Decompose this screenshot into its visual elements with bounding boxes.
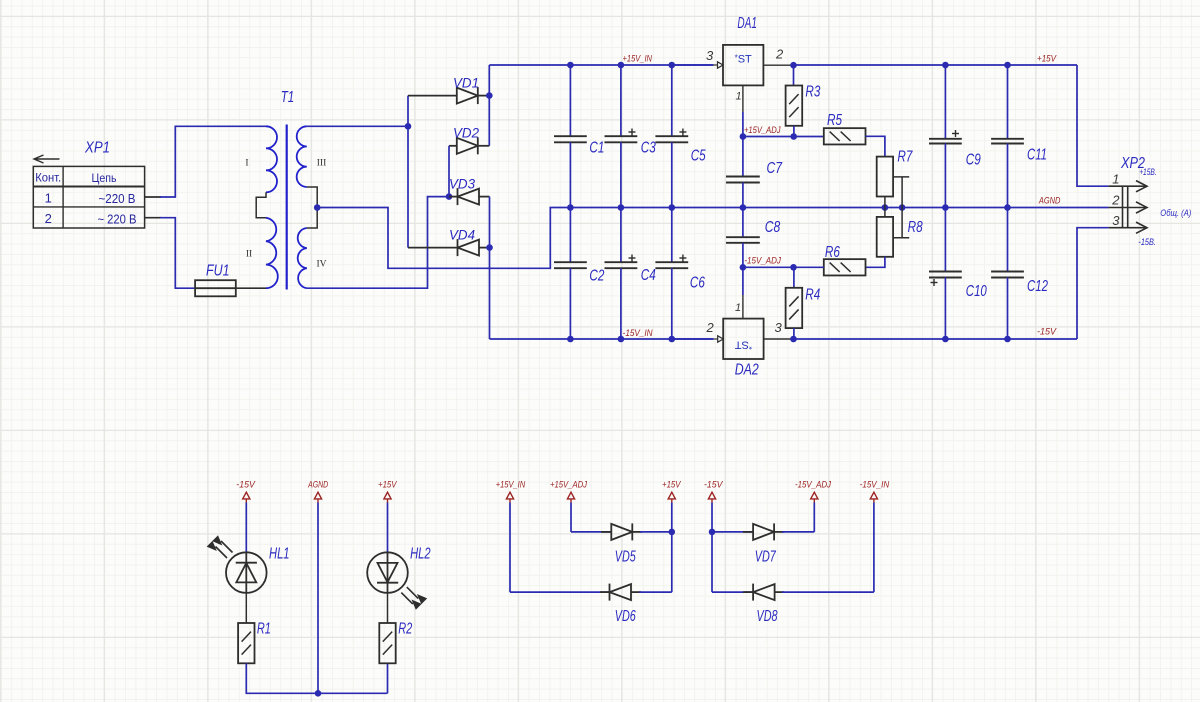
capacitor C2 [554, 208, 587, 340]
DA2 pin 1 number [735, 302, 741, 314]
wire +15V_ADJ to VD5 [571, 531, 611, 533]
XP1 pin 2 text [45, 211, 137, 227]
svg-text:R2: R2 [398, 620, 412, 637]
diode VD4 [408, 239, 490, 256]
power flag +15V_IN (VD6) [506, 492, 513, 592]
wire R7 to AGND [884, 197, 886, 208]
svg-text:1: 1 [45, 191, 52, 206]
svg-text:C6: C6 [690, 274, 705, 291]
wire VD8 to -15V_IN [782, 591, 874, 593]
diode VD8 [743, 584, 784, 601]
node VD1 cathode junction [486, 92, 493, 99]
wire AGND to R8 [884, 208, 886, 217]
power flag +15V_ADJ (VD5) [567, 492, 574, 532]
svg-text:R7: R7 [897, 149, 913, 166]
wire winding IV bottom to VD3 node [307, 197, 449, 289]
svg-text:DA1: DA1 [737, 15, 757, 32]
wire -15V_IN rail [490, 338, 714, 340]
wire HL2 to R2 [387, 593, 389, 623]
capacitor C10 label [966, 283, 987, 300]
svg-text:FU1: FU1 [206, 263, 230, 280]
net label +15V (HL2) [378, 480, 398, 491]
T1 primary winding II [266, 218, 278, 288]
svg-text:C5: C5 [691, 148, 706, 165]
XP2 pin 3 number [1112, 213, 1120, 228]
capacitor C7 label [767, 160, 784, 177]
power flag -15V_IN (VD8) [870, 492, 877, 592]
net label -15V (bottom) [704, 480, 724, 491]
net label -15V (HL1) [236, 480, 256, 491]
node -15V_ADJ DA2 junction [740, 264, 747, 271]
resistor R1 [238, 623, 254, 663]
node AGND junction x945 [942, 204, 949, 211]
DA1 pin 1 wire [742, 85, 744, 136]
capacitor C9 [929, 65, 962, 208]
XP2 net -15В [1138, 237, 1156, 248]
resistor R2 label [398, 620, 412, 637]
node C3 top [618, 62, 625, 69]
net label +15V_ADJ (bottom) [550, 480, 587, 491]
svg-text:HL1: HL1 [269, 545, 290, 562]
wire DA1 out to R3 [793, 65, 795, 85]
svg-text:R4: R4 [805, 286, 820, 303]
wire VD7 to -15V_ADJ [782, 531, 814, 533]
wire VD1 anode vertical [407, 96, 409, 248]
svg-text:VD7: VD7 [755, 548, 777, 565]
wire -15V to VD7 [712, 531, 753, 533]
svg-text:AGND: AGND [307, 480, 328, 491]
op-amp U-block DA1 [723, 45, 763, 86]
wire +15V to XP2 pin1 [1077, 65, 1109, 186]
svg-text:R6: R6 [825, 244, 840, 261]
wire XP1-2 down to fuse [145, 218, 196, 289]
net label -15V_IN [623, 328, 653, 339]
svg-text:AGND: AGND [1038, 196, 1060, 207]
resistor R8 label [908, 219, 923, 236]
svg-text:Конт.: Конт. [35, 173, 61, 185]
svg-text:+15V_ADJ: +15V_ADJ [550, 480, 587, 491]
svg-text:C9: C9 [966, 151, 981, 168]
node AGND bottom junction [315, 690, 322, 697]
capacitor C12 [991, 208, 1024, 340]
svg-text:3: 3 [706, 48, 714, 63]
wire +15V rail [794, 64, 1078, 66]
svg-text:DA2: DA2 [735, 361, 759, 378]
svg-text:VD8: VD8 [757, 608, 778, 625]
DA1 label [737, 15, 757, 32]
svg-text:R5: R5 [827, 112, 842, 129]
wire AGND rail [570, 207, 1108, 209]
svg-text:1: 1 [735, 302, 741, 314]
svg-text:2: 2 [706, 320, 715, 335]
resistor R3 [786, 86, 803, 126]
svg-text:+15V_IN: +15V_IN [623, 54, 653, 65]
T1 primary winding I [266, 126, 277, 192]
net label -15V_ADJ [744, 255, 781, 266]
node DA2 output junction [790, 336, 797, 343]
svg-text:VD4: VD4 [449, 228, 475, 243]
connector XP2 label [1120, 155, 1145, 172]
net label +15V_IN (bottom) [496, 480, 526, 491]
XP2 pin 2 number [1111, 193, 1120, 208]
capacitor C7 [726, 137, 760, 208]
svg-text:II: II [246, 250, 252, 260]
node C11 top [1004, 62, 1011, 69]
svg-text:2: 2 [1111, 193, 1120, 208]
DA1 pin 2 number [775, 47, 784, 62]
resistor R7 label [897, 149, 913, 166]
diode VD1 label [453, 76, 479, 91]
svg-text:-15V_IN: -15V_IN [623, 328, 653, 339]
svg-text:+15V_IN: +15V_IN [496, 480, 526, 491]
XP2 net +15В [1139, 167, 1157, 178]
capacitor C2 label [589, 268, 604, 285]
diode VD7 [743, 523, 784, 540]
diode VD5 label [615, 548, 636, 565]
svg-text:-15V: -15V [704, 480, 724, 491]
fuse FU1 [195, 280, 236, 296]
capacitor C1 [554, 65, 587, 208]
XP2 net Общ (А) [1160, 208, 1191, 219]
node VD4 cathode junction [486, 244, 493, 251]
svg-text:1: 1 [1112, 172, 1119, 187]
node AGND junction x884 [882, 204, 889, 211]
svg-text:XP1: XP1 [84, 140, 110, 157]
T1 winding IV numeral [316, 260, 326, 270]
svg-text:-15V: -15V [1037, 327, 1058, 338]
XP1 table header text [35, 171, 116, 185]
capacitor C4 label [641, 267, 656, 284]
DA1 pin 3 number [706, 48, 714, 63]
wire VD3/VD4 right vertical to -15V_IN rail [489, 197, 491, 339]
power flag -15V (VD7/VD8) [708, 492, 715, 532]
svg-text:VD3: VD3 [449, 177, 475, 192]
power flag -15V (HL1) [243, 492, 250, 552]
wire +15V_IN to VD6 [510, 591, 610, 593]
svg-text:-15В.: -15В. [1138, 237, 1156, 248]
svg-text:*ST: *ST [735, 54, 752, 66]
power flag AGND (bottom) [314, 492, 321, 693]
node C12 bottom [1004, 336, 1011, 343]
capacitor C3 [605, 65, 638, 208]
svg-text:C7: C7 [767, 160, 784, 177]
connector XP1 table [33, 166, 144, 228]
svg-text:2: 2 [775, 47, 784, 62]
node AGND junction x570 [567, 204, 574, 211]
svg-text:C8: C8 [765, 219, 781, 236]
capacitor C10 [929, 208, 962, 340]
diode VD6 [600, 584, 641, 601]
diode VD3 label [449, 177, 475, 192]
node C9 top [942, 62, 949, 69]
DA2 pin 3 number [775, 320, 783, 335]
DA1 pin 2 wire [763, 64, 793, 66]
resistor R2 [379, 623, 395, 663]
LED HL1 [208, 536, 267, 593]
svg-text:C4: C4 [641, 267, 656, 284]
svg-text:C3: C3 [641, 139, 656, 156]
DA2 pin 3 wire [764, 338, 794, 340]
diode VD5 [601, 523, 642, 540]
capacitor C11 label [1027, 147, 1047, 164]
capacitor C3 label [641, 139, 656, 156]
svg-text:VD6: VD6 [615, 608, 636, 625]
svg-text:C1: C1 [589, 139, 604, 156]
svg-text:-15V_ADJ: -15V_ADJ [795, 480, 831, 491]
wire +15V down to VD6 [671, 532, 673, 592]
svg-text:1: 1 [736, 91, 742, 103]
resistor R4 [786, 288, 803, 328]
wire T1 tap to AGND jog [317, 208, 572, 269]
wire R3 to +15V_ADJ [793, 126, 795, 137]
svg-text:~ 220 В: ~ 220 В [98, 212, 137, 227]
wire -15V_IN to DA2 pin 2 [672, 336, 723, 342]
LED HL1 label [269, 545, 290, 562]
node VD3 junction [446, 193, 453, 200]
DA2 pin 2 number [706, 320, 715, 335]
transformer T1 label [281, 89, 295, 106]
capacitor C12 label [1027, 278, 1048, 295]
power flag +15V (HL2) [384, 492, 391, 552]
svg-text:R1: R1 [257, 620, 271, 637]
wire +15V_IN rail [489, 64, 713, 66]
node winding III top junction [405, 123, 412, 130]
diode VD6 label [615, 608, 636, 625]
wire VD6 to +15V node [639, 591, 672, 593]
svg-text:C2: C2 [589, 268, 604, 285]
T1 secondary winding IV [298, 228, 307, 288]
resistor R1 label [257, 620, 271, 637]
wire VD2 anode to VD3 node [448, 146, 450, 197]
svg-text:-15V_IN: -15V_IN [860, 480, 890, 491]
diode VD2 [449, 137, 489, 154]
node C1 top [567, 62, 574, 69]
wire R8 to R6 [866, 257, 885, 268]
svg-text:HL2: HL2 [410, 545, 431, 562]
capacitor C4 [605, 208, 638, 340]
resistor R8 [877, 217, 893, 257]
resistor R6 label [825, 244, 840, 261]
svg-text:+15V: +15V [1037, 54, 1057, 65]
node AGND junction x620 [618, 204, 625, 211]
wire VD5 to +15V node [640, 531, 672, 533]
net label -15V [1037, 327, 1058, 338]
node R3 bottom junction [790, 133, 797, 140]
svg-text:R8: R8 [908, 219, 923, 236]
diode VD2 label [453, 126, 479, 141]
svg-text:III: III [317, 159, 327, 169]
svg-text:I: I [245, 159, 248, 169]
node AGND junction x902 [899, 204, 906, 211]
node R4 top junction [790, 264, 797, 271]
node C10 bottom [942, 336, 949, 343]
wire R4 top [793, 267, 795, 288]
connector XP1 arrow [34, 155, 60, 163]
svg-text:C10: C10 [966, 283, 987, 300]
node AGND junction x742 [740, 204, 747, 211]
op-amp U-block DA2 [723, 319, 763, 359]
XP2 pin 1 number [1112, 172, 1119, 187]
R8 tap [893, 208, 909, 238]
svg-text:3: 3 [775, 320, 783, 335]
wire -15V to XP2 pin3 [1077, 228, 1109, 339]
wire -15V down to VD8 [712, 532, 753, 592]
net label +15V [1037, 54, 1057, 65]
wire R1 to AGND bottom [246, 663, 318, 693]
node C2 bottom [567, 336, 574, 343]
wire FU1 to T1 winding II [236, 287, 266, 289]
T1 core [286, 125, 288, 290]
power flag +15V (VD5/VD6) [668, 492, 675, 532]
resistor R5 label [827, 112, 842, 129]
wire R4 to -15V rail [793, 328, 795, 339]
svg-text:~220 В: ~220 В [99, 191, 136, 206]
connector XP2 pins [1109, 181, 1147, 234]
power flag -15V_ADJ (VD7) [811, 492, 818, 532]
net label +15V_ADJ [744, 125, 781, 136]
capacitor C11 [991, 65, 1024, 208]
node C6 bottom [669, 336, 676, 343]
DA1 pin 1 number [736, 91, 742, 103]
resistor R7 [877, 157, 893, 197]
wire winding III top to VD1/VD4 vertical [307, 125, 408, 127]
net label +15V (bottom) [662, 480, 682, 491]
svg-text:VD5: VD5 [615, 548, 636, 565]
node AGND junction x671 [669, 204, 676, 211]
svg-text:-15V_ADJ: -15V_ADJ [744, 255, 781, 266]
svg-text:*ST: *ST [735, 339, 752, 351]
T1 winding III numeral [317, 159, 327, 169]
wire VD1/VD2 cathode vertical to +15V_IN rail [488, 65, 490, 146]
wire XP1-1 to T1 winding I [145, 126, 266, 197]
net label +15V_IN [623, 54, 653, 65]
svg-text:Общ. (А): Общ. (А) [1160, 208, 1191, 219]
svg-text:+15В.: +15В. [1139, 167, 1157, 178]
node AGND junction x1007 [1004, 204, 1011, 211]
svg-text:-15V: -15V [236, 480, 256, 491]
svg-text:IV: IV [316, 260, 326, 270]
capacitor C8 [726, 208, 760, 268]
capacitor C1 label [589, 139, 604, 156]
wire R5 to R7 [866, 136, 885, 156]
wire HL1 to R1 [245, 593, 247, 623]
diode VD4 label [449, 228, 475, 243]
node +15V_ADJ DA1 junction [740, 133, 747, 140]
net label AGND (bottom) [307, 480, 328, 491]
LED HL2 label [410, 545, 431, 562]
XP1 pin 1 text [45, 191, 136, 207]
svg-text:3: 3 [1112, 213, 1120, 228]
capacitor C6 label [690, 274, 705, 291]
R7 tap [893, 177, 909, 208]
node +15V junction (VD5) [669, 529, 676, 536]
svg-text:VD1: VD1 [453, 76, 479, 91]
svg-text:+15V: +15V [662, 480, 682, 491]
node T1 tap junction [314, 204, 321, 211]
svg-text:Цепь: Цепь [92, 171, 117, 185]
wire AGND bottom to R2 [318, 663, 388, 693]
svg-text:R3: R3 [805, 84, 820, 101]
net label -15V_IN (bottom) [860, 480, 890, 491]
capacitor C8 label [765, 219, 781, 236]
svg-text:2: 2 [45, 211, 52, 226]
wire -15V rail [794, 338, 1078, 340]
DA2 pin 1 wire [742, 267, 744, 318]
wire +15V_IN to DA1 pin 3 [672, 62, 723, 68]
svg-text:VD2: VD2 [453, 126, 479, 141]
svg-text:C11: C11 [1027, 147, 1047, 164]
diode VD7 label [755, 548, 777, 565]
capacitor C6 [655, 208, 688, 340]
svg-text:C12: C12 [1027, 278, 1048, 295]
capacitor C5 [655, 65, 688, 208]
resistor R4 label [805, 286, 820, 303]
wire R6 to -15V_ADJ [794, 266, 824, 268]
node DA1 output junction [790, 62, 797, 69]
connector XP1 label [84, 140, 110, 157]
node C5 top [669, 62, 676, 69]
svg-text:T1: T1 [281, 89, 295, 106]
LED HL2 [367, 552, 426, 609]
capacitor C5 label [691, 148, 706, 165]
wire -15V_ADJ row [743, 266, 794, 268]
resistor R6 [824, 259, 866, 275]
fuse FU1 label [206, 263, 230, 280]
resistor R5 [824, 128, 866, 144]
DA2 label [735, 361, 759, 378]
diode VD8 label [757, 608, 778, 625]
diode VD3 [449, 188, 490, 205]
T1 secondary winding III [297, 126, 307, 187]
T1 winding I numeral [245, 159, 248, 169]
wire +15V_ADJ row [743, 136, 824, 138]
capacitor C9 label [966, 151, 981, 168]
T1 secondary tap step [307, 187, 317, 228]
T1 winding II numeral [246, 250, 252, 260]
svg-text:+15V: +15V [378, 480, 398, 491]
node C4 bottom [618, 336, 625, 343]
net label AGND [1038, 196, 1060, 207]
diode VD1 [408, 87, 489, 104]
svg-text:+15V_ADJ: +15V_ADJ [744, 125, 781, 136]
T1 primary center tap [256, 192, 266, 218]
node -15V junction (VD7) [709, 529, 716, 536]
net label -15V_ADJ (bottom) [795, 480, 831, 491]
resistor R3 label [805, 84, 820, 101]
